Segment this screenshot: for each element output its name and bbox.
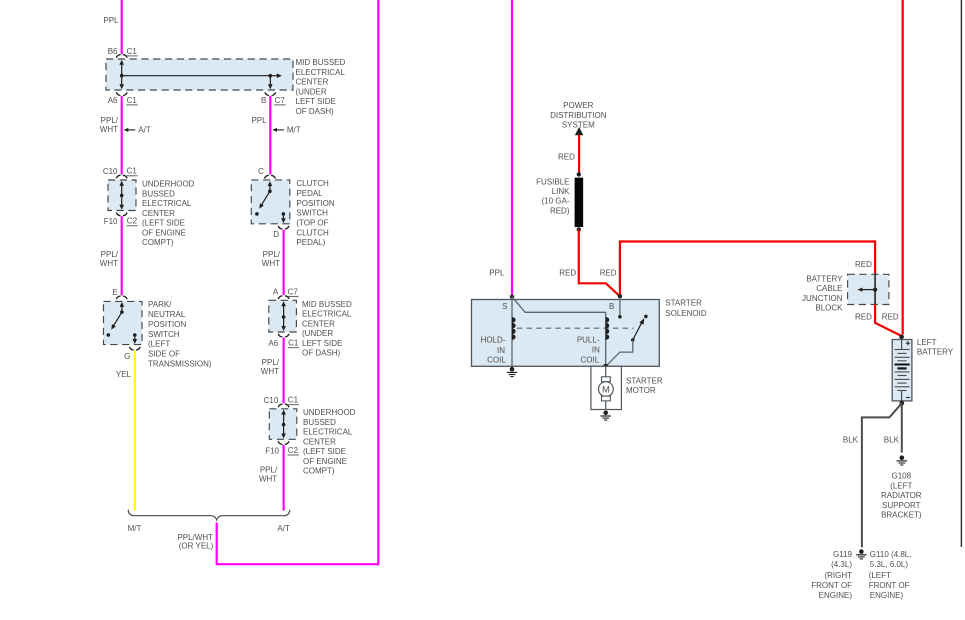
node battery negative junction xyxy=(900,401,905,406)
svg-text:POWER: POWER xyxy=(563,101,593,110)
bus pass-through arrow xyxy=(283,305,285,327)
svg-text:OF ENGINE: OF ENGINE xyxy=(142,228,186,237)
component BT1 LEFT BATTERY xyxy=(892,340,912,401)
connector pin C (clutch switch) xyxy=(265,175,269,178)
svg-text:OF DASH): OF DASH) xyxy=(296,107,335,116)
wire W9b PPL vertical riser full height xyxy=(377,0,379,565)
wire junction block internal pass-through xyxy=(874,274,876,304)
component MID BUSSED ELECTRICAL CENTER (dashed box, bus bar) xyxy=(106,59,293,90)
bus vertical arrow left (B6 to A6 pass-through) xyxy=(121,64,123,86)
node junction mid-bus xyxy=(282,423,286,427)
inductor L1 HOLD-IN COIL bumps xyxy=(512,317,516,323)
svg-text:IN: IN xyxy=(592,345,600,354)
svg-text:G119: G119 xyxy=(833,550,853,559)
svg-text:SWITCH: SWITCH xyxy=(296,209,328,218)
node junction on left bus xyxy=(120,74,124,78)
svg-text:A/T: A/T xyxy=(277,524,290,533)
connector C1 pin B6 (in-line connector symbol) xyxy=(116,55,120,58)
wire RED from power distribution to fusible link xyxy=(578,135,580,174)
svg-text:WHT: WHT xyxy=(100,125,118,134)
svg-text:A6: A6 xyxy=(268,339,278,348)
svg-text:POSITION: POSITION xyxy=(148,320,186,329)
svg-text:SUPPORT: SUPPORT xyxy=(882,501,921,510)
page edge rule (right) xyxy=(960,0,962,547)
connector C1 pin C10 (second underhood center) xyxy=(278,404,282,407)
svg-text:WHT: WHT xyxy=(100,259,118,268)
wire W5 PPL/WHT from pin D to mid bussed center pin A xyxy=(283,230,285,295)
svg-text:BRACKET): BRACKET) xyxy=(881,511,922,520)
svg-text:RED: RED xyxy=(559,268,576,277)
svg-text:F10: F10 xyxy=(104,217,118,226)
svg-text:RED: RED xyxy=(882,313,899,322)
component K1 STARTER SOLENOID (box) xyxy=(472,300,660,367)
bus pass-through arrow xyxy=(283,413,285,435)
svg-text:CENTER: CENTER xyxy=(302,319,335,328)
svg-text:RED: RED xyxy=(855,313,872,322)
svg-text:RED): RED) xyxy=(550,206,570,215)
component S1 PARK/NEUTRAL POSITION SWITCH (dashed box) xyxy=(104,301,143,344)
svg-text:ELECTRICAL: ELECTRICAL xyxy=(302,310,352,319)
wire W8 YEL from pin G to splice brace xyxy=(134,351,136,511)
svg-text:G110 (4.8L,: G110 (4.8L, xyxy=(870,550,912,559)
battery plates xyxy=(895,349,910,351)
component M1 STARTER MOTOR case xyxy=(591,366,622,409)
ground at hold-in coil (solenoid case) xyxy=(510,367,515,372)
svg-text:(LEFT SIDE: (LEFT SIDE xyxy=(303,447,346,456)
battery plus sign xyxy=(906,342,910,344)
bus vertical arrow right (to B C7) xyxy=(269,76,271,86)
switch S1 input arrow from pin E xyxy=(121,304,123,312)
wire contactor arm to motor node xyxy=(606,340,633,367)
switch S1 right contact (to pin G) xyxy=(133,333,137,337)
connector C1 pin A6 xyxy=(278,334,282,337)
switch S2 movable arm with arrowhead xyxy=(268,189,272,193)
wire W7 PPL/WHT from F10 to splice brace xyxy=(283,445,285,511)
svg-text:(LEFT SIDE: (LEFT SIDE xyxy=(142,219,185,228)
svg-text:ELECTRICAL: ELECTRICAL xyxy=(303,428,353,437)
svg-text:YEL: YEL xyxy=(116,370,132,379)
component F1 FUSIBLE LINK (10 GA-RED) black bar xyxy=(575,178,583,227)
wire motor feed xyxy=(605,366,607,377)
node junction block tap xyxy=(873,288,877,292)
svg-text:(UNDER: (UNDER xyxy=(296,87,327,96)
svg-text:BUSSED: BUSSED xyxy=(142,189,175,198)
wire RED junction block to battery positive xyxy=(875,305,902,337)
svg-text:A: A xyxy=(273,288,279,297)
svg-text:STARTER: STARTER xyxy=(626,376,663,385)
wire BLK battery negative branch to G119/G110 xyxy=(862,403,902,547)
svg-text:TRANSMISSION): TRANSMISSION) xyxy=(148,359,212,368)
svg-text:G108: G108 xyxy=(892,472,912,481)
svg-text:COMPT): COMPT) xyxy=(303,467,335,476)
svg-text:CLUTCH: CLUTCH xyxy=(296,179,329,188)
svg-text:C1: C1 xyxy=(288,396,299,405)
svg-text:RED: RED xyxy=(600,268,617,277)
wire RED from fusible link to solenoid B terminal xyxy=(579,230,620,297)
svg-text:PPL: PPL xyxy=(251,116,267,125)
svg-text:BLK: BLK xyxy=(884,436,900,445)
component MID BUSSED ELECTRICAL CENTER second (dashed box) xyxy=(269,300,297,332)
svg-text:SWITCH: SWITCH xyxy=(148,330,180,339)
node junction pull-in coil / contactor / motor xyxy=(603,364,608,369)
svg-text:C10: C10 xyxy=(103,167,118,176)
terminal S node dot xyxy=(510,295,514,299)
svg-text:BUSSED: BUSSED xyxy=(303,418,336,427)
svg-text:DISTRIBUTION: DISTRIBUTION xyxy=(550,111,607,120)
svg-text:(LEFT: (LEFT xyxy=(869,571,891,580)
wire W3 PPL/WHT to park/neutral switch xyxy=(121,216,123,295)
wire BLK battery negative to G108 xyxy=(901,403,903,452)
svg-text:CABLE: CABLE xyxy=(816,284,842,293)
svg-text:MOTOR: MOTOR xyxy=(626,386,656,395)
svg-text:(4.3L): (4.3L) xyxy=(831,560,852,569)
svg-text:LEFT: LEFT xyxy=(917,338,937,347)
svg-text:COMPT): COMPT) xyxy=(142,238,174,247)
svg-text:CENTER: CENTER xyxy=(296,78,329,87)
svg-text:CENTER: CENTER xyxy=(142,209,175,218)
svg-text:IN: IN xyxy=(497,346,505,355)
switch S1 movable arm with arrowhead xyxy=(120,310,124,314)
svg-text:WHT: WHT xyxy=(262,259,280,268)
wire RED battery positive riser (from top of page) xyxy=(902,0,904,335)
svg-text:(OR YEL): (OR YEL) xyxy=(179,542,214,551)
svg-text:PARK/: PARK/ xyxy=(148,300,172,309)
svg-text:OF DASH): OF DASH) xyxy=(302,349,341,358)
node junction on right bus xyxy=(269,74,273,78)
svg-text:A/T: A/T xyxy=(138,126,151,135)
ground G starter motor xyxy=(603,411,608,416)
svg-text:COIL: COIL xyxy=(581,356,600,365)
svg-text:BATTERY: BATTERY xyxy=(806,275,843,284)
svg-text:E: E xyxy=(112,288,117,297)
svg-text:ENGINE): ENGINE) xyxy=(870,591,904,600)
svg-text:(RIGHT: (RIGHT xyxy=(824,571,852,580)
wire W2 PPL/WHT (A/T branch) xyxy=(121,96,123,174)
mechanical linkage dashed line xyxy=(517,327,634,329)
connector C7 pin A xyxy=(278,296,282,299)
svg-text:ELECTRICAL: ELECTRICAL xyxy=(296,68,346,77)
wire motor to ground xyxy=(605,401,607,410)
bus pass-through arrow xyxy=(121,185,123,207)
svg-text:WHT: WHT xyxy=(259,474,277,483)
svg-text:(LEFT: (LEFT xyxy=(148,340,170,349)
svg-text:PEDAL: PEDAL xyxy=(296,189,323,198)
wire W10 PPL crank request to starter solenoid S xyxy=(511,0,513,295)
svg-text:LINK: LINK xyxy=(552,187,570,196)
svg-text:C10: C10 xyxy=(264,396,279,405)
svg-text:BATTERY: BATTERY xyxy=(917,348,954,357)
svg-text:C7: C7 xyxy=(275,96,286,105)
svg-text:ELECTRICAL: ELECTRICAL xyxy=(142,199,192,208)
svg-text:A6: A6 xyxy=(108,96,118,105)
svg-text:PPL/: PPL/ xyxy=(263,250,281,259)
svg-text:M/T: M/T xyxy=(128,524,142,533)
svg-text:PPL/: PPL/ xyxy=(260,465,278,474)
svg-text:RADIATOR: RADIATOR xyxy=(881,491,922,500)
terminal B node dot (red junction) xyxy=(618,294,622,298)
svg-text:C1: C1 xyxy=(127,167,138,176)
connector C1 pin A6 xyxy=(116,92,120,95)
svg-text:HOLD-: HOLD- xyxy=(481,336,506,345)
component UNDERHOOD BUSSED ELECTRICAL CENTER second (dashed box) xyxy=(269,409,297,440)
svg-text:JUNCTION: JUNCTION xyxy=(802,294,843,303)
svg-text:OF ENGINE: OF ENGINE xyxy=(303,457,347,466)
node splice at top of fusible link xyxy=(577,172,581,176)
svg-text:MID BUSSED: MID BUSSED xyxy=(302,300,352,309)
svg-text:SOLENOID: SOLENOID xyxy=(665,309,707,318)
connector C2 pin F10 xyxy=(278,441,282,444)
svg-text:RED: RED xyxy=(558,152,575,161)
switch S1 left contact xyxy=(107,333,111,337)
wire W9 PPL/WHT output of splice, down right and up to top (net to theft deterrent) xyxy=(217,523,379,565)
wire solenoid S internal vertical to hold-in coil xyxy=(511,297,513,366)
svg-text:M: M xyxy=(602,384,610,395)
node junction mid-bus xyxy=(120,194,124,198)
svg-text:PPL/: PPL/ xyxy=(262,358,280,367)
switch S2 input arrow from pin C xyxy=(269,183,271,191)
connector pin D xyxy=(278,226,282,229)
component S2 CLUTCH PEDAL POSITION SWITCH (dashed box) xyxy=(251,180,289,224)
switch S2 right contact (to pin D) xyxy=(282,212,286,216)
wire solenoid B internal stub xyxy=(619,298,621,317)
svg-text:(10 GA-: (10 GA- xyxy=(541,197,569,206)
svg-text:5.3L, 6.0L): 5.3L, 6.0L) xyxy=(870,560,909,569)
svg-text:FRONT OF: FRONT OF xyxy=(811,581,852,590)
connector C1 pin C10 (underhood center input) xyxy=(116,175,120,178)
node battery positive junction xyxy=(899,335,904,340)
svg-text:PPL/: PPL/ xyxy=(101,116,119,125)
inductor L2 PULL-IN COIL bumps xyxy=(606,317,610,323)
node junction mid-bus xyxy=(282,315,286,319)
svg-text:(TOP OF: (TOP OF xyxy=(296,219,328,228)
svg-text:B: B xyxy=(609,302,614,311)
contact fixed motor-side xyxy=(644,315,648,319)
svg-text:PPL: PPL xyxy=(489,268,505,277)
svg-text:C1: C1 xyxy=(127,47,138,56)
svg-text:RED: RED xyxy=(855,260,872,269)
battery positive terminal stub xyxy=(901,340,903,350)
connector C7 pin B xyxy=(265,92,269,95)
wire W1 PPL feed (net PPL, from ignition switch) xyxy=(121,0,123,54)
connector C2 pin F10 xyxy=(116,213,120,216)
svg-text:G: G xyxy=(124,352,130,361)
svg-text:CLUTCH: CLUTCH xyxy=(296,228,329,237)
inductor L2 PULL-IN COIL wire down xyxy=(605,312,607,366)
wire RED battery feed riser to junction block xyxy=(620,242,875,297)
motor brush bottom xyxy=(602,396,611,401)
arrow junction block output to left xyxy=(861,289,875,291)
svg-text:D: D xyxy=(273,230,279,239)
battery negative terminal stub xyxy=(901,391,903,401)
motor brush top xyxy=(602,377,611,382)
svg-text:PULL-: PULL- xyxy=(577,336,600,345)
svg-text:BLK: BLK xyxy=(843,436,859,445)
svg-text:(LEFT: (LEFT xyxy=(890,481,912,490)
switch S2 left contact xyxy=(255,212,259,216)
svg-text:POSITION: POSITION xyxy=(296,199,334,208)
connector pin G xyxy=(129,347,133,350)
svg-text:CENTER: CENTER xyxy=(303,437,336,446)
ground G119/G110 xyxy=(859,549,864,554)
svg-text:B: B xyxy=(261,96,266,105)
splice brace joining M/T and A/T branches xyxy=(128,510,290,520)
svg-text:UNDERHOOD: UNDERHOOD xyxy=(303,408,356,417)
wire W6 PPL/WHT to underhood center xyxy=(283,338,285,403)
svg-text:BLOCK: BLOCK xyxy=(815,304,843,313)
svg-text:F10: F10 xyxy=(265,446,279,455)
component J1 BATTERY CABLE JUNCTION BLOCK (dashed box) xyxy=(848,274,889,304)
switch S1 output arrow to pin G xyxy=(134,335,136,340)
battery minus sign xyxy=(906,397,910,399)
svg-text:LEFT SIDE: LEFT SIDE xyxy=(296,97,336,106)
svg-text:PEDAL): PEDAL) xyxy=(296,238,325,247)
svg-text:B6: B6 xyxy=(108,47,118,56)
wire W4 PPL (M/T branch) xyxy=(269,96,271,174)
wire solenoid S internal branch to pull-in coil xyxy=(512,297,606,313)
ground G108 xyxy=(900,455,905,460)
off-page arrow up to power distribution xyxy=(575,127,584,135)
motor armature circle M xyxy=(599,382,614,397)
svg-text:C2: C2 xyxy=(127,217,138,226)
svg-text:C1: C1 xyxy=(127,96,138,105)
svg-text:LEFT SIDE: LEFT SIDE xyxy=(302,339,342,348)
switch S2 output arrow to pin D xyxy=(282,214,284,219)
svg-text:PPL/: PPL/ xyxy=(101,250,119,259)
svg-text:C: C xyxy=(258,167,264,176)
svg-text:S: S xyxy=(502,302,507,311)
svg-text:FUSIBLE: FUSIBLE xyxy=(536,177,569,186)
svg-text:PPL: PPL xyxy=(103,16,119,25)
switch arm solenoid contactor with arrowhead xyxy=(631,338,635,342)
svg-text:NEUTRAL: NEUTRAL xyxy=(148,310,186,319)
svg-text:ENGINE): ENGINE) xyxy=(819,591,853,600)
svg-text:STARTER: STARTER xyxy=(665,298,702,307)
component UNDERHOOD BUSSED ELECTRICAL CENTER (dashed box) xyxy=(108,180,136,211)
tag M/T with arrow xyxy=(276,129,284,131)
svg-text:C7: C7 xyxy=(288,287,299,296)
svg-text:M/T: M/T xyxy=(287,126,301,135)
svg-text:C2: C2 xyxy=(288,446,299,455)
svg-text:WHT: WHT xyxy=(261,367,279,376)
node splice at bottom of fusible link xyxy=(577,227,581,231)
svg-text:SIDE OF: SIDE OF xyxy=(148,349,180,358)
bus horizontal arrow to right branch xyxy=(122,75,278,77)
svg-text:(UNDER: (UNDER xyxy=(302,329,333,338)
svg-text:UNDERHOOD: UNDERHOOD xyxy=(142,180,195,189)
tag A/T with arrow xyxy=(127,129,135,131)
contact fixed B-side xyxy=(618,315,622,319)
svg-text:MID BUSSED: MID BUSSED xyxy=(296,58,346,67)
svg-text:C1: C1 xyxy=(288,339,299,348)
connector pin E (park/neutral switch) xyxy=(116,296,120,299)
svg-text:COIL: COIL xyxy=(487,356,506,365)
svg-text:FRONT OF: FRONT OF xyxy=(869,581,910,590)
